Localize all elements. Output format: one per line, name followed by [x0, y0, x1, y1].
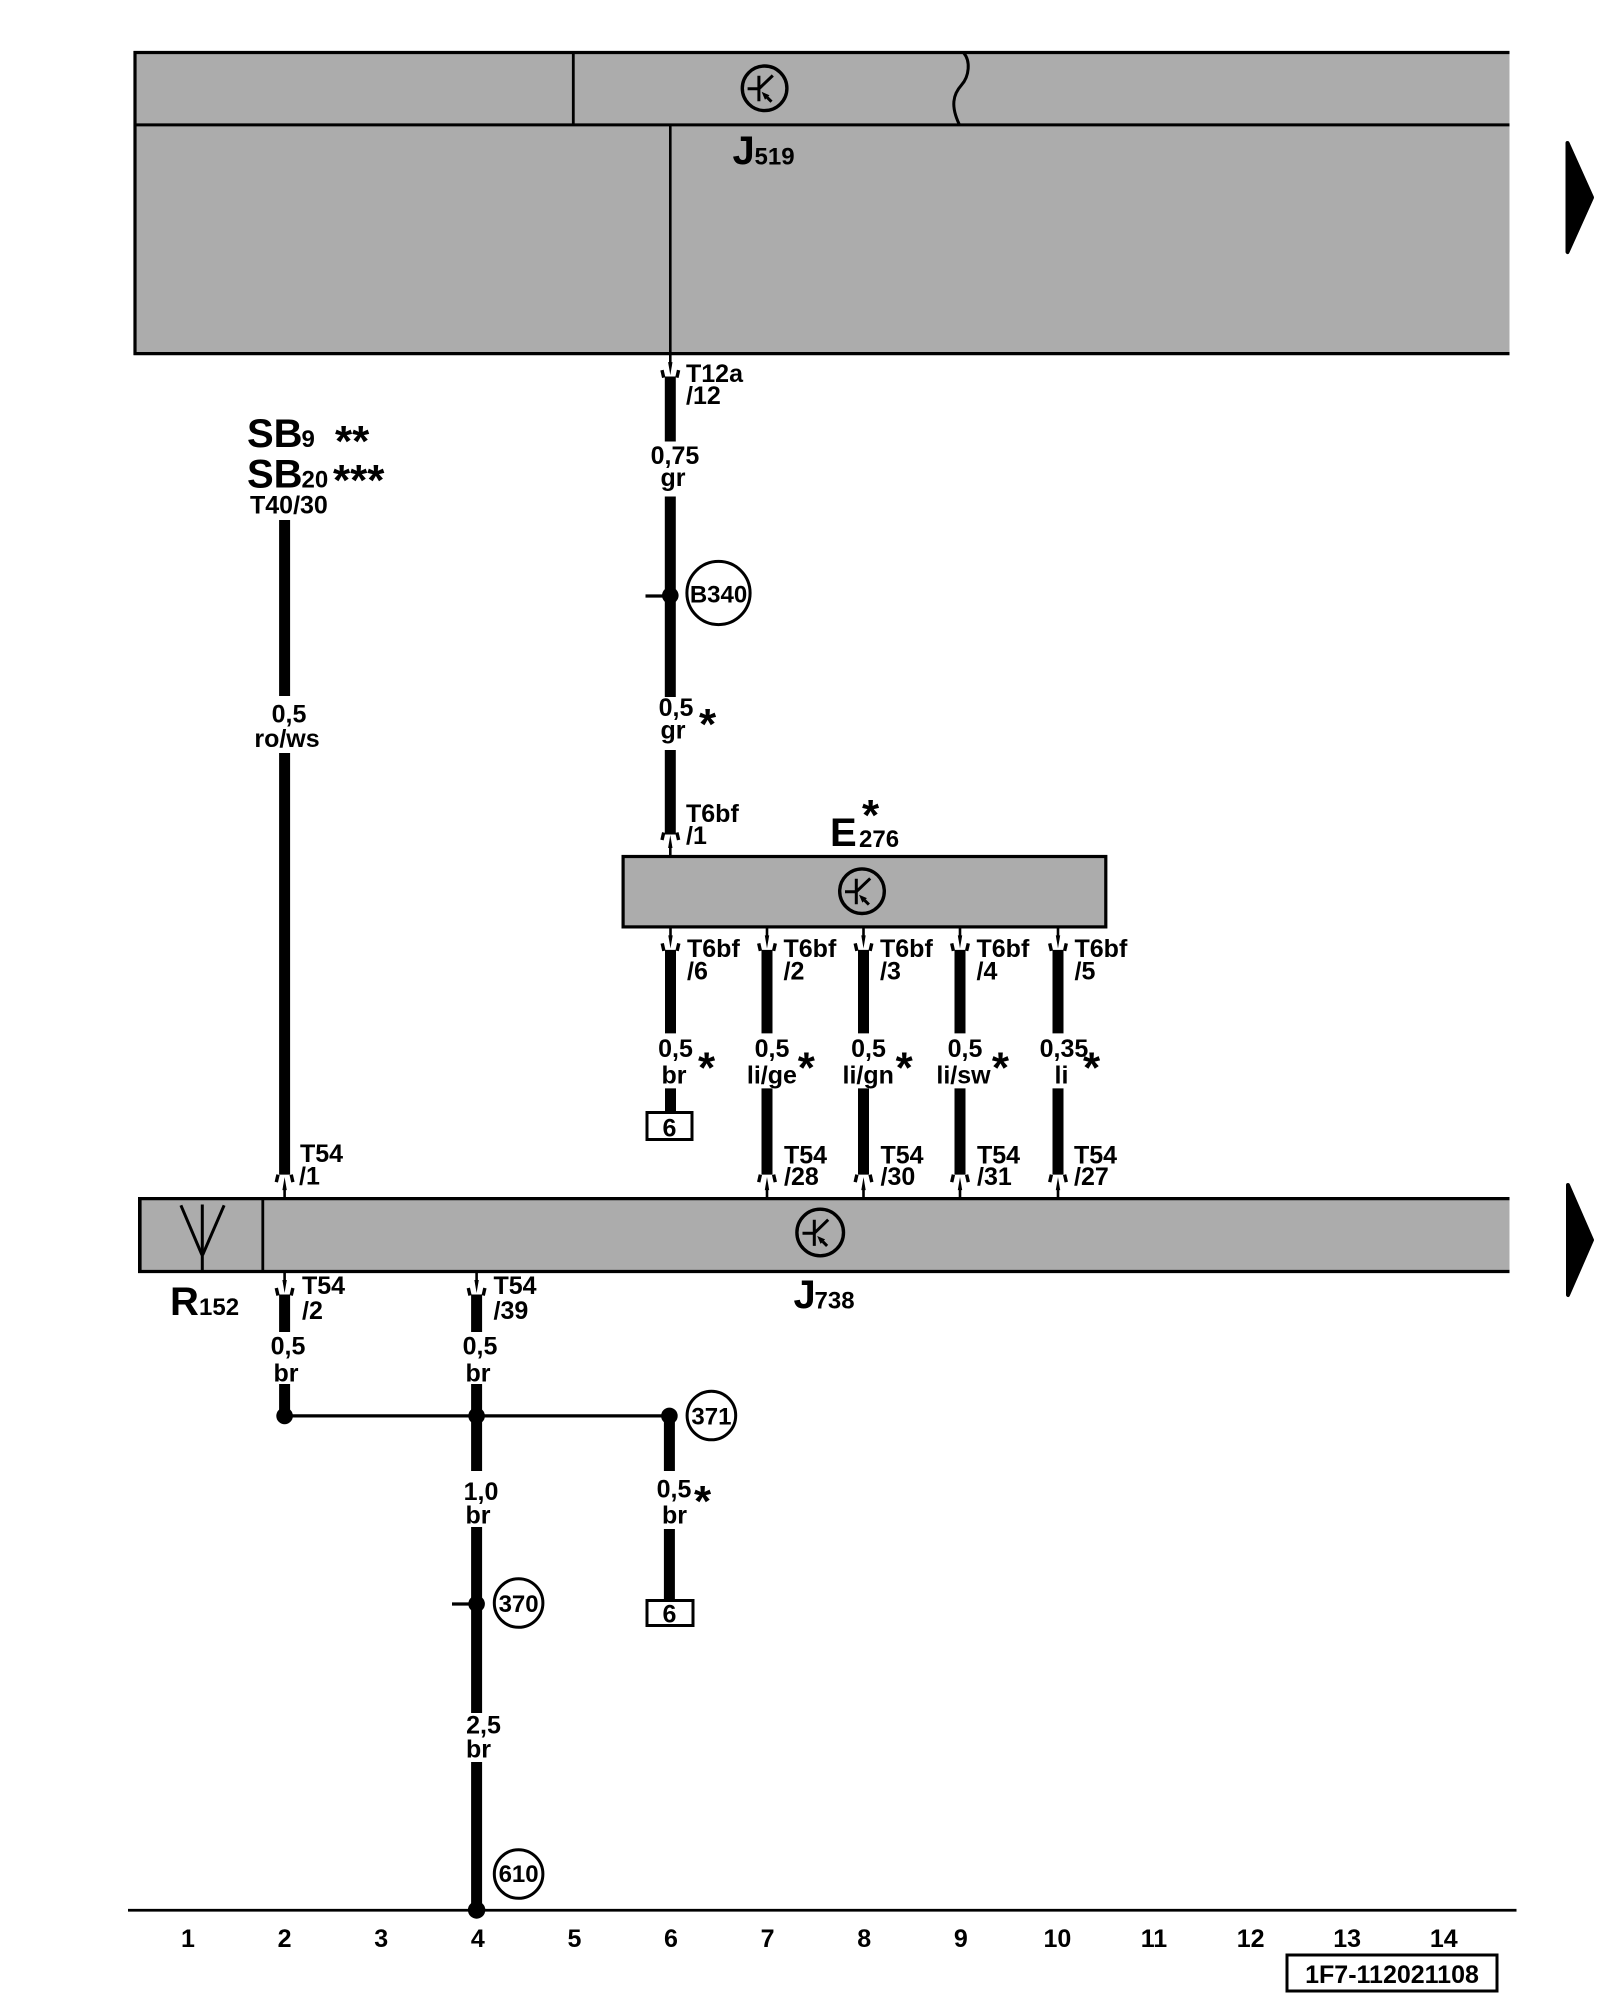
- connector T54/30: [855, 1175, 872, 1199]
- wire 2,5 br lower segment: [471, 1762, 482, 1910]
- ground point 610: [494, 1850, 543, 1899]
- svg-text:5: 5: [567, 1925, 581, 1953]
- wire 0,5 ro/ws segment 1: [279, 520, 290, 696]
- connector T54/28: [759, 1175, 776, 1199]
- connector T6bf/3: [855, 927, 872, 951]
- ground point 371: [687, 1391, 736, 1440]
- wire col4 to splice 370: [471, 1527, 482, 1713]
- svg-text:/1: /1: [299, 1163, 320, 1191]
- wire 0,5 br (col2): [279, 1295, 290, 1333]
- svg-text:20: 20: [302, 467, 329, 494]
- svg-text:*: *: [1083, 1044, 1101, 1093]
- svg-text:*: *: [798, 1044, 816, 1093]
- wire 0,5 li/gn: [858, 950, 869, 1034]
- svg-text:9: 9: [954, 1925, 968, 1953]
- wire 0,5 br (col4): [471, 1295, 482, 1333]
- svg-text:gr: gr: [661, 717, 686, 745]
- connector T6bf/6: [662, 927, 679, 951]
- antenna symbol R152: [181, 1205, 224, 1272]
- svg-text:li/ge: li/ge: [747, 1062, 797, 1090]
- antenna compartment divider: [261, 1199, 264, 1272]
- svg-text:519: 519: [755, 144, 795, 171]
- wire 0,75 gr segment 2: [665, 497, 676, 698]
- svg-text:0,5: 0,5: [271, 1333, 306, 1361]
- svg-text:7: 7: [761, 1925, 775, 1953]
- connector T54/27: [1050, 1175, 1067, 1199]
- labels SB9 ** / SB20 *** / T40/30: [247, 412, 385, 520]
- light switch E276 box: [623, 857, 1106, 927]
- svg-text:br: br: [466, 1502, 491, 1530]
- connector T54/1: [276, 1175, 293, 1199]
- svg-text:li/sw: li/sw: [936, 1062, 991, 1090]
- ground junction on track line: [468, 1901, 485, 1918]
- splice B340: [646, 561, 751, 624]
- svg-text:4: 4: [471, 1925, 485, 1953]
- svg-text:0,5: 0,5: [657, 1476, 692, 1504]
- svg-text:/4: /4: [977, 958, 998, 986]
- control unit J738 bar: [138, 1197, 1510, 1273]
- svg-text:*: *: [694, 1477, 712, 1526]
- svg-text:6: 6: [664, 1925, 678, 1953]
- svg-text:B340: B340: [690, 582, 747, 609]
- svg-text:1: 1: [181, 1925, 195, 1953]
- ground designation box 6 (upper): [647, 1113, 692, 1143]
- wire 0,75 gr segment 1: [665, 377, 676, 442]
- ground designation box 6 (lower): [647, 1601, 693, 1629]
- svg-text:li/gn: li/gn: [843, 1062, 894, 1090]
- connector T12a/12: [662, 354, 679, 378]
- connector T6bf/4: [952, 927, 969, 951]
- wire 0,5 br * (col6): [664, 1416, 675, 1471]
- svg-text:10: 10: [1043, 1925, 1071, 1953]
- continuation arrow right at J738: [1568, 1185, 1592, 1295]
- svg-text:SB: SB: [247, 453, 303, 497]
- svg-text:gr: gr: [661, 464, 686, 492]
- svg-text:/2: /2: [784, 958, 805, 986]
- ground wire horizontal: [285, 1414, 670, 1417]
- svg-text:br: br: [662, 1062, 687, 1090]
- svg-text:T40/30: T40/30: [250, 492, 328, 520]
- wire 0,5 ro/ws segment 2: [279, 753, 290, 1175]
- svg-text:/28: /28: [784, 1163, 819, 1191]
- svg-text:J: J: [794, 1273, 816, 1317]
- svg-text:li: li: [1055, 1062, 1069, 1090]
- svg-text:*: *: [992, 1044, 1010, 1093]
- svg-text:br: br: [466, 1736, 491, 1764]
- svg-text:/27: /27: [1074, 1163, 1109, 1191]
- wire inside J519 to pin T12a: [669, 125, 672, 354]
- track numbers 1-14: [181, 1925, 1458, 1953]
- svg-text:0,5: 0,5: [463, 1333, 498, 1361]
- control unit J519 box: [134, 51, 1510, 355]
- lamp symbol in J738: [797, 1209, 844, 1256]
- junction node col2: [276, 1408, 293, 1425]
- wire 0,5 gr segment: [665, 750, 676, 835]
- svg-text:0,35: 0,35: [1040, 1035, 1089, 1063]
- junction node 371: [661, 1408, 678, 1425]
- diagram number box 1F7-112021108: [1287, 1955, 1497, 1991]
- connector T6bf/2: [759, 927, 776, 951]
- connector T54/39: [468, 1272, 485, 1296]
- svg-text:1F7-112021108: 1F7-112021108: [1305, 1961, 1479, 1989]
- svg-text:152: 152: [199, 1294, 239, 1321]
- svg-text:0,5: 0,5: [948, 1035, 983, 1063]
- connector T6bf/5: [1050, 927, 1067, 951]
- connector T54/31: [952, 1175, 969, 1199]
- connector T54/2: [276, 1272, 293, 1296]
- svg-text:*: *: [862, 791, 880, 840]
- divider in J519 top strip: [572, 53, 575, 125]
- svg-text:0,5: 0,5: [658, 1035, 693, 1063]
- svg-text:/12: /12: [686, 382, 721, 410]
- svg-text:14: 14: [1430, 1925, 1458, 1953]
- svg-text:/39: /39: [494, 1297, 529, 1325]
- splice 370: [452, 1579, 543, 1628]
- svg-text:R: R: [170, 1280, 199, 1324]
- svg-text:738: 738: [815, 1288, 855, 1315]
- svg-text:/5: /5: [1075, 958, 1096, 986]
- junction node col4: [468, 1408, 485, 1425]
- svg-text:11: 11: [1141, 1925, 1168, 1953]
- svg-text:*: *: [896, 1044, 914, 1093]
- svg-text:***: ***: [333, 456, 385, 505]
- svg-text:6: 6: [663, 1115, 677, 1143]
- wire 0,5 li/sw: [955, 950, 966, 1034]
- svg-text:0,5: 0,5: [851, 1035, 886, 1063]
- svg-text:/31: /31: [977, 1163, 1012, 1191]
- svg-text:br: br: [662, 1502, 687, 1530]
- svg-text:610: 610: [499, 1861, 539, 1888]
- wire 0,5 br (col6) lower to ground 6: [665, 1088, 676, 1112]
- svg-text:*: *: [698, 1044, 716, 1093]
- svg-text:/2: /2: [302, 1297, 323, 1325]
- svg-text:T54: T54: [494, 1272, 537, 1300]
- svg-text:ro/ws: ro/ws: [254, 725, 319, 753]
- svg-text:*: *: [699, 700, 717, 749]
- svg-text:13: 13: [1333, 1925, 1361, 1953]
- svg-text:8: 8: [857, 1925, 871, 1953]
- svg-text:370: 370: [499, 1591, 539, 1618]
- wire 0,5 br (col6) upper: [665, 950, 676, 1034]
- continuation arrow top right: [1568, 143, 1593, 252]
- break squiggle in J519 strip: [954, 53, 968, 125]
- svg-text:br: br: [466, 1360, 491, 1388]
- lamp symbol in E276: [840, 869, 885, 914]
- svg-text:12: 12: [1237, 1925, 1265, 1953]
- svg-text:3: 3: [374, 1925, 388, 1953]
- svg-text:T54: T54: [302, 1272, 345, 1300]
- svg-text:SB: SB: [247, 412, 303, 456]
- svg-text:J: J: [733, 129, 755, 173]
- svg-text:371: 371: [691, 1404, 731, 1431]
- svg-text:0,5: 0,5: [755, 1035, 790, 1063]
- lamp symbol in J519: [742, 66, 787, 111]
- connector T6bf/1: [662, 833, 679, 857]
- svg-text:6: 6: [663, 1601, 677, 1629]
- svg-text:/1: /1: [686, 822, 707, 850]
- wire 0,35 li: [1053, 950, 1064, 1034]
- svg-text:br: br: [274, 1360, 299, 1388]
- svg-text:/30: /30: [881, 1163, 916, 1191]
- wire 0,5 li/ge: [762, 950, 773, 1034]
- svg-text:2: 2: [278, 1925, 292, 1953]
- bottom track line: [128, 1909, 1517, 1912]
- svg-text:E: E: [830, 811, 857, 855]
- svg-text:/3: /3: [880, 958, 901, 986]
- svg-text:9: 9: [302, 426, 315, 453]
- svg-text:/6: /6: [687, 958, 708, 986]
